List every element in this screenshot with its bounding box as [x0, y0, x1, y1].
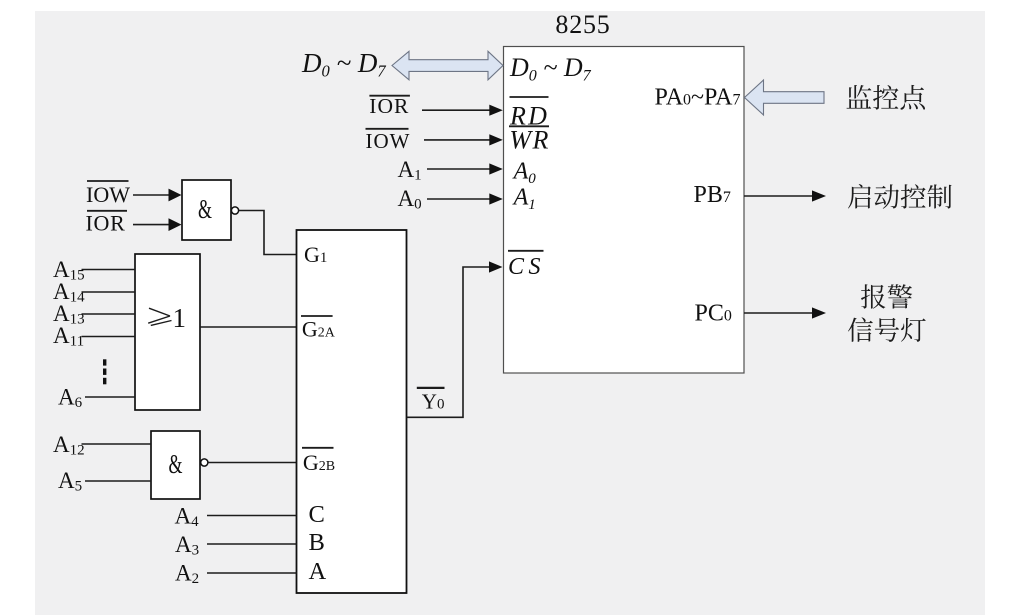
wire IOR to RD pin	[422, 109, 490, 111]
pin label G2A	[301, 315, 333, 317]
svg-text:D0 ~ D7: D0 ~ D7	[509, 53, 592, 85]
svg-text:1: 1	[173, 303, 187, 333]
svg-text:&: &	[169, 449, 183, 479]
wire A6	[85, 396, 135, 398]
net label IOR (left)	[87, 210, 127, 212]
PA port block arrow (monitor input)	[745, 80, 825, 115]
label 信号灯 (signal lamp)	[848, 317, 926, 342]
wire Y0 to CS pin	[407, 267, 490, 417]
svg-text:8255: 8255	[555, 10, 610, 39]
wire U2 output to decoder G1	[239, 211, 297, 255]
wire PC0 output	[744, 312, 813, 314]
wire A3 to B	[207, 543, 297, 545]
8255 PPI chip U1	[504, 47, 745, 374]
U3 symbol >=1	[148, 308, 171, 325]
svg-text:WR: WR	[509, 126, 550, 155]
pin label CS (inside U1)	[508, 250, 544, 252]
label 报警 (alarm)	[861, 284, 912, 308]
svg-text:D0 ~ D7: D0 ~ D7	[301, 48, 386, 81]
wire A0 to A1 pin	[427, 198, 490, 200]
ellipsis dots	[103, 359, 106, 384]
pin label G2B	[302, 447, 334, 449]
wire IOW to U2	[133, 194, 169, 196]
NAND gate U4 (A12.A5)	[151, 431, 200, 499]
data bus bidirectional block arrow	[392, 51, 503, 80]
net label IOW	[366, 128, 409, 130]
wire A5 to U4	[85, 480, 151, 482]
wire U4 output to decoder G2B	[208, 462, 297, 464]
svg-text:C: C	[309, 501, 325, 528]
U4 output bubble	[201, 459, 208, 466]
wire A11	[82, 336, 136, 338]
wire A2 to A	[207, 572, 297, 574]
OR gate U3 (address high bits)	[135, 254, 200, 410]
net label IOR	[369, 95, 410, 97]
svg-text:&: &	[198, 194, 212, 224]
wire U3 output to decoder G2A	[200, 326, 297, 328]
wire A15	[82, 269, 136, 271]
svg-text:PA0~PA7: PA0~PA7	[655, 84, 741, 110]
net label IOW (left)	[87, 180, 129, 182]
decoder 74LS138 U5	[297, 230, 407, 593]
wire A14	[82, 291, 136, 293]
U2 output bubble	[231, 207, 238, 214]
pin label RD (inside U1)	[510, 96, 549, 98]
NAND gate U2 (IOW.IOR)	[182, 180, 231, 240]
svg-text:IOW: IOW	[366, 129, 411, 153]
svg-text:A: A	[309, 558, 327, 585]
wire A13	[82, 313, 136, 315]
label 启动控制 (start control)	[848, 184, 952, 209]
svg-text:CS: CS	[508, 254, 545, 280]
wire A12 to U4	[82, 443, 152, 445]
svg-text:IOR: IOR	[369, 94, 409, 118]
wire A1 to A0 pin	[427, 168, 490, 170]
pin label WR (inside U1)	[509, 125, 549, 127]
svg-text:IOW: IOW	[86, 182, 130, 207]
svg-text:IOR: IOR	[86, 210, 126, 235]
net label Y0	[417, 387, 445, 389]
wire IOW to WR pin	[424, 139, 490, 141]
label 监控点 (monitor points)	[846, 85, 925, 110]
svg-text:B: B	[309, 529, 325, 556]
wire IOR to U2	[133, 224, 169, 226]
wire A4 to C	[207, 515, 297, 517]
wire PB7 output	[744, 195, 813, 197]
